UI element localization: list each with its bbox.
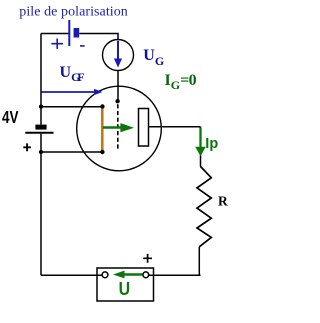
junction dot: left rail to filament-bottom feed: [39, 150, 43, 154]
junction dot: filament bottom: [100, 150, 104, 154]
U voltage arrow (green, leftward): [113, 271, 143, 279]
pile battery long thin plate (blue): [68, 20, 70, 46]
wire: filament bottom feed: [41, 151, 102, 153]
wire: top rail right segment with drop to UG source: [79, 34, 118, 40]
junction dot: left rail to filament-top feed: [39, 105, 43, 109]
wire: right rail lower segment: [198, 247, 200, 275]
UGF voltage arrow (blue): [41, 89, 103, 95]
polarity label + (4V): [23, 143, 31, 151]
svg-text:pile de polarisation: pile de polarisation: [19, 5, 128, 20]
wire: top rail left segment: [41, 33, 69, 35]
terminal: box left: [102, 272, 108, 278]
wire: right rail upper segment: [200, 127, 202, 167]
svg-text:Ip: Ip: [205, 136, 218, 152]
svg-text:UG: UG: [143, 47, 164, 68]
svg-text:U: U: [119, 278, 131, 299]
svg-text:IG=0: IG=0: [165, 72, 197, 92]
svg-text:UGF: UGF: [60, 64, 85, 84]
grid G (dashed electrode): [117, 104, 119, 149]
junction dot: filament top: [100, 104, 104, 108]
filament F (orange electrode): [101, 107, 104, 152]
wire: left rail upper segment: [40, 34, 42, 125]
terminal: box right: [143, 272, 149, 278]
tube envelope U1 (triode): [77, 86, 162, 171]
wire: box to bottom right: [149, 274, 201, 276]
Ip current arrow (green, downward): [195, 128, 206, 157]
polarity label + (pile): [51, 39, 63, 49]
battery 4V short thick plate: [35, 125, 46, 130]
svg-text:4V: 4V: [2, 107, 19, 127]
UG source arrow (blue, downward): [114, 41, 122, 68]
polarity label - (pile): [80, 45, 85, 47]
voltage source UG (circle): [103, 40, 134, 71]
polarity label + (box): [143, 254, 152, 263]
junction dot: grid connection: [115, 99, 119, 103]
wire: filament top feed: [41, 106, 102, 108]
measurement box U: [97, 268, 154, 301]
wire: bottom left to box: [41, 274, 102, 276]
pile battery short thick plate (blue): [74, 28, 80, 38]
wire: anode to right rail: [149, 126, 201, 128]
wire: left rail lower segment: [40, 134, 42, 276]
resistor R zigzag: [197, 167, 211, 247]
wire: UG source to grid: [117, 71, 119, 101]
battery 4V long thin plate: [25, 132, 53, 134]
anode plate P (rectangle electrode): [139, 109, 149, 147]
svg-text:R: R: [218, 194, 228, 209]
electron flow arrow (green) inside tube: [103, 123, 134, 132]
